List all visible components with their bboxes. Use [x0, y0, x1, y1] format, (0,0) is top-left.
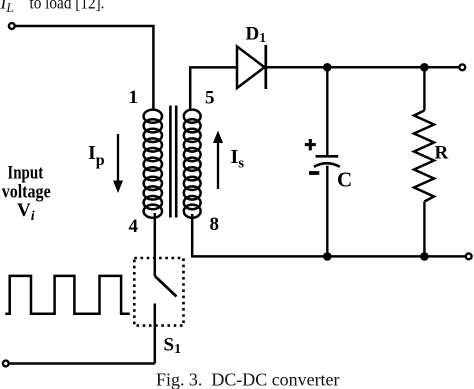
resistor R — [414, 111, 434, 202]
top output rail from diode cathode to output terminal — [266, 66, 459, 69]
svg-text:C: C — [337, 168, 352, 192]
wire from switch to bottom-left terminal — [9, 362, 155, 365]
label Input voltage Vi — [2, 163, 51, 225]
switch S1 blade — [155, 276, 177, 364]
svg-text:R: R — [435, 143, 449, 164]
wire from resistor down to bottom rail — [423, 202, 425, 257]
svg-text:5: 5 — [205, 88, 215, 109]
cropped body text "IL to load [12]." — [0, 0, 105, 15]
capacitor C — [314, 156, 340, 167]
svg-text:8: 8 — [210, 214, 220, 235]
output terminal bottom-right — [466, 254, 472, 260]
arrow Ip (downward) — [113, 134, 123, 193]
junction node at resistor top — [420, 63, 429, 72]
diode D1 — [237, 45, 266, 89]
junction node at capacitor bottom — [323, 252, 332, 261]
input terminal top-left — [9, 23, 15, 29]
transformer T1 primary winding (pins 1-4) — [144, 110, 162, 218]
switch S1 enclosure (dotted box) — [134, 258, 183, 326]
wire from top rail down to resistor — [423, 67, 425, 110]
capacitor C plus polarity mark — [305, 139, 316, 150]
wire from top-left terminal to transformer primary pin 1 — [15, 26, 153, 110]
svg-text:Fig. 3. DC-DC converter: Fig. 3. DC-DC converter — [156, 370, 340, 389]
wire from secondary pin 8 to bottom rail — [192, 214, 466, 256]
wire from primary pin 4 down to switch — [154, 213, 157, 276]
transformer T1 secondary winding (pins 5-8) — [184, 110, 201, 218]
svg-text:Input: Input — [7, 163, 43, 184]
gate drive square-wave signal — [5, 276, 130, 314]
junction node at capacitor top — [323, 63, 332, 72]
arrow Is (upward) — [213, 131, 223, 190]
junction node at resistor bottom — [420, 252, 429, 261]
output terminal top-right — [459, 64, 465, 70]
svg-text:4: 4 — [129, 216, 139, 237]
transformer T1 core — [170, 106, 176, 218]
capacitor C minus polarity mark — [309, 171, 319, 175]
svg-text:1: 1 — [129, 87, 139, 108]
wire from secondary pin 5 to diode anode — [190, 67, 237, 110]
wire from capacitor down to bottom rail — [326, 166, 328, 257]
input terminal bottom-left — [3, 361, 9, 367]
wire from top rail down to capacitor — [326, 67, 328, 155]
